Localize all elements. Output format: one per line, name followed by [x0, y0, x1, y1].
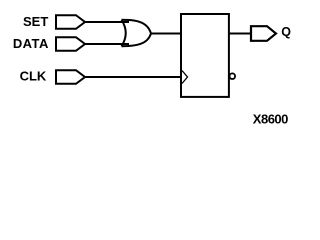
- input port SET: [56, 15, 85, 29]
- OR gate U1: [122, 20, 152, 46]
- flip-flop U2 body: [181, 14, 229, 97]
- output port Q: [251, 26, 276, 41]
- wire DATA to OR gate: [84, 43, 129, 45]
- svg-text:DATA: DATA: [13, 36, 49, 51]
- input port DATA: [56, 37, 85, 51]
- flip-flop inverted-output bubble: [230, 73, 236, 79]
- wire flip-flop Q output: [229, 33, 251, 35]
- wire SET to OR gate: [84, 21, 129, 23]
- input port CLK: [56, 70, 85, 84]
- flip-flop clock triangle: [182, 71, 188, 84]
- svg-text:X8600: X8600: [253, 112, 288, 127]
- svg-text:SET: SET: [23, 14, 48, 29]
- wire CLK to flip-flop: [84, 76, 181, 78]
- svg-text:Q: Q: [281, 25, 291, 39]
- wire OR gate output to flip-flop: [150, 33, 181, 35]
- svg-text:CLK: CLK: [20, 69, 47, 84]
